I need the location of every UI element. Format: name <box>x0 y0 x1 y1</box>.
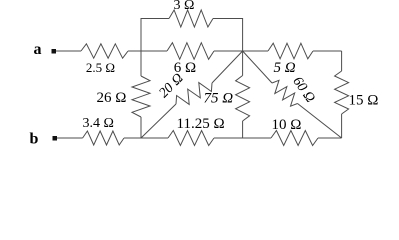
wire node1 up <box>141 19 169 52</box>
wire 20 ohm upper lead <box>212 51 243 83</box>
wire 75 ohm to node4 <box>242 121 244 138</box>
wire 60 ohm lower lead <box>298 104 342 139</box>
svg-text:a: a <box>34 41 42 58</box>
wire node2 down stub <box>242 51 244 76</box>
wire 26 ohm to node3 <box>140 117 142 138</box>
resistor 3.4 ohm <box>83 131 124 145</box>
wire b-line to bottom right corner <box>318 137 342 139</box>
resistor 2.5 ohm <box>81 44 128 58</box>
resistor 5 ohm <box>268 43 313 59</box>
wire node2 a-line <box>214 50 268 52</box>
wire a-line to top right corner <box>313 50 342 52</box>
wire node3 b-line <box>124 137 168 139</box>
svg-text:3.4 Ω: 3.4 Ω <box>83 116 114 131</box>
svg-text:15 Ω: 15 Ω <box>349 93 379 109</box>
svg-text:10 Ω: 10 Ω <box>272 117 302 133</box>
resistor 60 ohm <box>272 80 298 106</box>
svg-text:2.5 Ω: 2.5 Ω <box>86 60 115 75</box>
svg-text:5 Ω: 5 Ω <box>273 60 295 76</box>
resistor 75 ohm <box>236 76 250 122</box>
wire node1 down <box>140 51 142 76</box>
wire node1 a-line <box>128 50 167 52</box>
resistor 3 ohm <box>169 10 213 27</box>
wire top rail right down to node2 <box>213 19 243 52</box>
wire 60 ohm upper lead <box>243 51 272 83</box>
wire 15 ohm to bottom right corner <box>341 114 343 138</box>
svg-text:11.25 Ω: 11.25 Ω <box>177 116 225 132</box>
wire 20 ohm lower lead <box>141 104 176 138</box>
resistor 10 ohm <box>271 131 318 146</box>
terminal b dot <box>53 136 58 141</box>
svg-text:75 Ω: 75 Ω <box>204 91 234 107</box>
wire top right corner down <box>341 51 343 71</box>
wire b lead <box>57 137 83 139</box>
resistor 15 ohm <box>335 71 349 114</box>
svg-text:3 Ω: 3 Ω <box>174 0 195 13</box>
svg-text:26 Ω: 26 Ω <box>97 90 127 106</box>
terminal a dot <box>52 49 57 54</box>
wire node4 b-line <box>214 137 271 139</box>
resistor 6 ohm <box>167 43 214 60</box>
resistor 20 ohm <box>176 83 212 105</box>
resistor 11.25 ohm <box>168 131 214 146</box>
wire a lead <box>56 50 81 52</box>
svg-text:60 Ω: 60 Ω <box>289 74 317 105</box>
svg-text:b: b <box>30 131 39 148</box>
resistor 26 ohm <box>132 76 150 117</box>
